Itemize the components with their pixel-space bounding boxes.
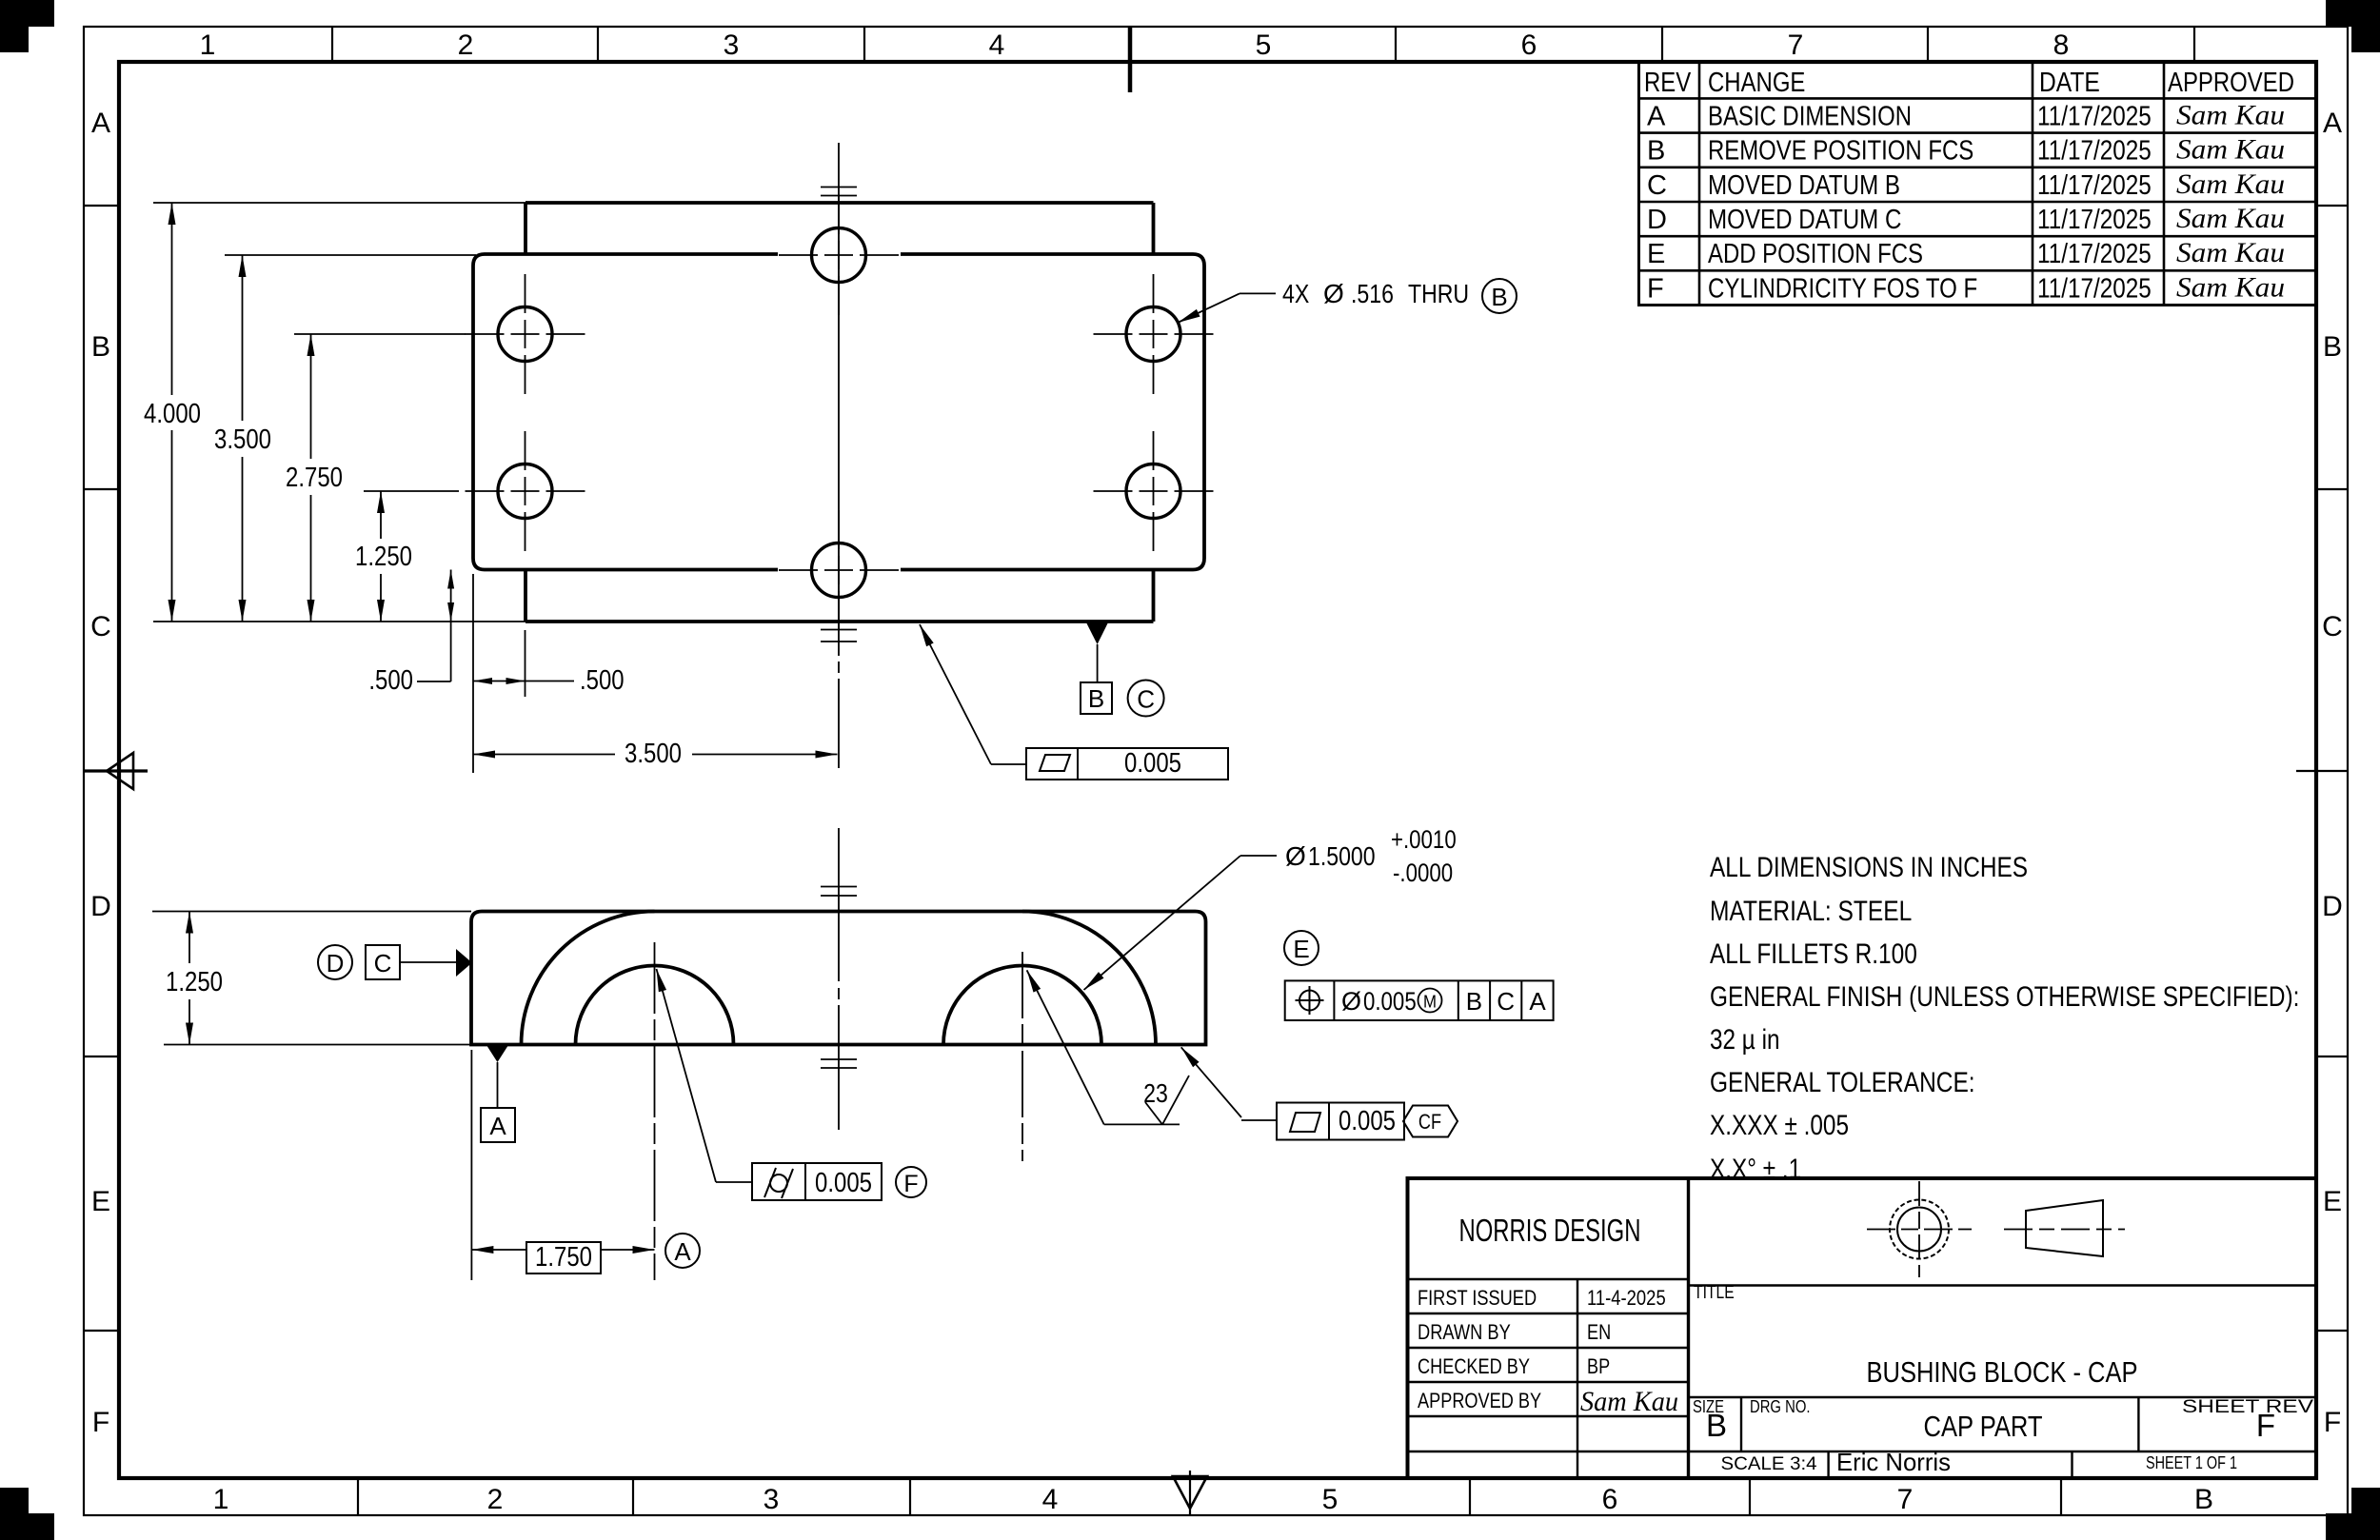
svg-text:F: F — [92, 1407, 109, 1438]
svg-text:.516: .516 — [1351, 279, 1394, 308]
svg-text:M: M — [1423, 993, 1437, 1012]
svg-text:A: A — [674, 1237, 691, 1266]
svg-text:SHEET 1 OF 1: SHEET 1 OF 1 — [2146, 1453, 2237, 1472]
svg-text:X.XXX ± .005: X.XXX ± .005 — [1710, 1110, 1849, 1141]
svg-text:11-4-2025: 11-4-2025 — [1587, 1286, 1666, 1310]
svg-text:2: 2 — [487, 1484, 504, 1515]
svg-text:0.005: 0.005 — [1339, 1106, 1396, 1136]
svg-text:C: C — [1497, 987, 1515, 1016]
svg-text:CAP PART: CAP PART — [1924, 1410, 2043, 1443]
svg-text:11/17/2025: 11/17/2025 — [2037, 170, 2152, 201]
svg-text:B: B — [91, 331, 110, 363]
svg-text:11/17/2025: 11/17/2025 — [2037, 205, 2152, 235]
svg-text:X.X° ± .1: X.X° ± .1 — [1710, 1154, 1801, 1185]
svg-text:7: 7 — [1788, 30, 1804, 61]
svg-text:MOVED DATUM B: MOVED DATUM B — [1708, 170, 1900, 201]
svg-text:8: 8 — [2053, 30, 2070, 61]
svg-text:6: 6 — [1521, 30, 1537, 61]
svg-text:4.000: 4.000 — [144, 399, 201, 429]
svg-text:E: E — [91, 1186, 110, 1217]
svg-text:B: B — [1088, 684, 1104, 713]
svg-text:CHANGE: CHANGE — [1708, 68, 1805, 98]
svg-text:1.5000: 1.5000 — [1308, 841, 1376, 871]
svg-text:B: B — [1491, 283, 1507, 311]
svg-text:BASIC DIMENSION: BASIC DIMENSION — [1708, 101, 1912, 131]
svg-text:BUSHING BLOCK - CAP: BUSHING BLOCK - CAP — [1867, 1355, 2138, 1389]
svg-text:A: A — [1647, 101, 1666, 131]
svg-text:Sam Kau: Sam Kau — [2176, 203, 2285, 234]
svg-text:SHEET REV: SHEET REV — [2182, 1397, 2313, 1417]
svg-text:EN: EN — [1587, 1320, 1611, 1344]
svg-text:B: B — [2323, 331, 2342, 363]
svg-text:CF: CF — [1418, 1110, 1441, 1134]
svg-text:1: 1 — [200, 30, 216, 61]
svg-text:11/17/2025: 11/17/2025 — [2037, 273, 2152, 304]
svg-text:Ø: Ø — [1341, 987, 1361, 1016]
svg-text:F: F — [2324, 1407, 2341, 1438]
svg-text:0.005: 0.005 — [815, 1168, 872, 1198]
svg-text:GENERAL FINISH (UNLESS OTHERWI: GENERAL FINISH (UNLESS OTHERWISE SPECIFI… — [1710, 981, 2299, 1013]
svg-text:5: 5 — [1322, 1484, 1339, 1515]
svg-text:C: C — [1647, 170, 1667, 201]
svg-text:DRG NO.: DRG NO. — [1750, 1397, 1811, 1416]
svg-text:32 µ in: 32 µ in — [1710, 1024, 1780, 1056]
svg-text:A: A — [1529, 987, 1546, 1016]
svg-text:B: B — [1466, 987, 1482, 1016]
svg-text:23: 23 — [1143, 1078, 1168, 1108]
svg-text:Eric Norris: Eric Norris — [1836, 1448, 1951, 1476]
svg-text:APPROVED: APPROVED — [2168, 68, 2294, 98]
svg-text:DATE: DATE — [2039, 68, 2100, 98]
svg-text:1: 1 — [213, 1484, 229, 1515]
svg-text:CHECKED BY: CHECKED BY — [1418, 1354, 1530, 1378]
svg-text:SCALE 3:4: SCALE 3:4 — [1721, 1454, 1817, 1474]
svg-text:5: 5 — [1256, 30, 1272, 61]
svg-text:0.005: 0.005 — [1124, 748, 1181, 779]
svg-text:CYLINDRICITY FOS TO F: CYLINDRICITY FOS TO F — [1708, 273, 1977, 304]
svg-text:2.750: 2.750 — [286, 463, 343, 493]
svg-text:MOVED DATUM C: MOVED DATUM C — [1708, 205, 1901, 235]
svg-text:Sam Kau: Sam Kau — [2176, 134, 2285, 166]
svg-text:A: A — [489, 1112, 506, 1140]
svg-text:.500: .500 — [368, 665, 413, 696]
svg-text:11/17/2025: 11/17/2025 — [2037, 101, 2152, 131]
svg-text:1.250: 1.250 — [166, 967, 223, 997]
svg-text:D: D — [90, 891, 111, 922]
svg-text:+.0010: +.0010 — [1391, 825, 1457, 854]
svg-text:11/17/2025: 11/17/2025 — [2037, 239, 2152, 269]
svg-text:E: E — [1293, 935, 1309, 963]
svg-text:ADD POSITION FCS: ADD POSITION FCS — [1708, 239, 1923, 269]
svg-text:3.500: 3.500 — [214, 424, 271, 455]
svg-text:Sam Kau: Sam Kau — [1580, 1386, 1678, 1417]
svg-text:Ø: Ø — [1323, 279, 1344, 308]
svg-text:1.750: 1.750 — [535, 1242, 592, 1273]
svg-text:THRU: THRU — [1408, 279, 1469, 308]
svg-text:GENERAL TOLERANCE:: GENERAL TOLERANCE: — [1710, 1067, 1975, 1098]
svg-text:2: 2 — [458, 30, 474, 61]
svg-text:DRAWN BY: DRAWN BY — [1418, 1320, 1511, 1344]
svg-text:C: C — [90, 611, 111, 642]
svg-text:Ø: Ø — [1285, 841, 1306, 871]
svg-text:D: D — [327, 949, 345, 977]
svg-text:1.250: 1.250 — [355, 542, 412, 572]
svg-text:6: 6 — [1602, 1484, 1618, 1515]
svg-text:REMOVE POSITION FCS: REMOVE POSITION FCS — [1708, 136, 1973, 167]
svg-text:A: A — [91, 108, 110, 139]
svg-text:APPROVED BY: APPROVED BY — [1418, 1389, 1541, 1412]
svg-text:F: F — [903, 1171, 918, 1197]
svg-text:D: D — [2322, 891, 2343, 922]
svg-text:3.500: 3.500 — [625, 739, 682, 769]
svg-text:TITLE: TITLE — [1694, 1283, 1735, 1303]
svg-text:C: C — [2322, 611, 2343, 642]
svg-text:4: 4 — [1042, 1484, 1059, 1515]
svg-text:NORRIS DESIGN: NORRIS DESIGN — [1459, 1213, 1641, 1248]
svg-text:B: B — [1647, 136, 1665, 167]
svg-text:D: D — [1647, 205, 1667, 235]
svg-text:FIRST ISSUED: FIRST ISSUED — [1418, 1286, 1537, 1310]
svg-text:4: 4 — [989, 30, 1005, 61]
svg-text:E: E — [1647, 239, 1665, 269]
svg-text:ALL FILLETS R.100: ALL FILLETS R.100 — [1710, 938, 1917, 970]
svg-text:Sam Kau: Sam Kau — [2176, 168, 2285, 200]
svg-text:B: B — [2194, 1484, 2213, 1515]
svg-text:3: 3 — [724, 30, 740, 61]
svg-text:7: 7 — [1897, 1484, 1914, 1515]
svg-text:C: C — [374, 949, 392, 977]
svg-text:REV: REV — [1644, 68, 1692, 98]
svg-text:B: B — [1706, 1408, 1727, 1443]
svg-text:C: C — [1137, 685, 1155, 714]
svg-text:BP: BP — [1587, 1354, 1610, 1378]
svg-text:4X: 4X — [1282, 279, 1310, 308]
svg-text:Sam Kau: Sam Kau — [2176, 99, 2285, 130]
svg-text:F: F — [1647, 273, 1664, 304]
svg-text:3: 3 — [764, 1484, 780, 1515]
svg-text:-.0000: -.0000 — [1393, 859, 1453, 887]
svg-text:A: A — [2323, 108, 2342, 139]
svg-text:MATERIAL: STEEL: MATERIAL: STEEL — [1710, 896, 1912, 927]
svg-text:11/17/2025: 11/17/2025 — [2037, 136, 2152, 167]
svg-text:Sam Kau: Sam Kau — [2176, 237, 2285, 268]
svg-text:.500: .500 — [580, 665, 625, 696]
svg-text:E: E — [2323, 1186, 2342, 1217]
svg-text:ALL DIMENSIONS IN INCHES: ALL DIMENSIONS IN INCHES — [1710, 852, 2028, 883]
svg-text:Sam Kau: Sam Kau — [2176, 271, 2285, 303]
svg-text:0.005: 0.005 — [1363, 987, 1417, 1016]
svg-text:F: F — [2256, 1408, 2275, 1443]
